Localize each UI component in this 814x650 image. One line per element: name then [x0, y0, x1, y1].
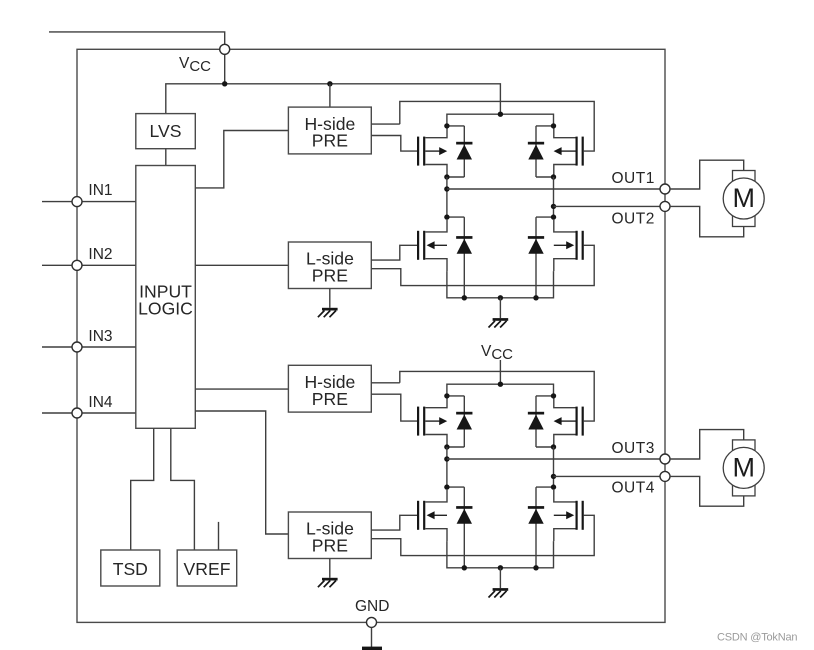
ground L-side PRE2	[318, 578, 338, 587]
wire VCC internal drop	[224, 54, 226, 84]
ground L-side PRE1	[318, 308, 338, 317]
transistor Q7 low-side left	[417, 490, 447, 541]
wire L-side PRE1 output 2 low gate route	[371, 245, 594, 285]
svg-text:VREF: VREF	[184, 559, 231, 579]
wire bridge1 ground stub	[499, 298, 501, 318]
svg-text:PRE: PRE	[312, 535, 348, 555]
svg-text:PRE: PRE	[312, 131, 348, 151]
svg-text:IN4: IN4	[88, 394, 113, 411]
svg-text:IN3: IN3	[88, 328, 112, 345]
terminal OUT3	[660, 454, 670, 464]
wire LVS to INPUT LOGIC	[165, 149, 167, 166]
node Q3 drain	[444, 214, 449, 219]
wire bridge2 ground stub	[499, 568, 501, 588]
wire IN2 to INPUT LOGIC	[82, 264, 136, 266]
wire motor2 lower	[670, 476, 744, 506]
wire L-side PRE2 output 2 low gate route	[371, 515, 594, 555]
terminal GND	[367, 617, 377, 627]
wire IN1 external stub	[42, 201, 72, 203]
motor M2	[723, 440, 764, 496]
svg-text:PRE: PRE	[312, 389, 348, 409]
transistor Q5 high-side left	[417, 396, 447, 447]
node D8 anode	[533, 565, 538, 570]
wire bridge1 bottom rail	[447, 271, 554, 298]
node Q6 source	[551, 444, 556, 449]
svg-text:VCC: VCC	[179, 55, 211, 75]
terminal OUT1	[660, 184, 670, 194]
node OUT2 tap	[551, 204, 556, 209]
wire bridge1 top rail	[447, 114, 554, 126]
node bridge1 ground tap	[498, 295, 503, 300]
wire OUT2 line	[554, 205, 661, 207]
wire L-side PRE1 output 1	[371, 245, 417, 260]
svg-text:CSDN @TokNan: CSDN @TokNan	[717, 632, 797, 644]
transistor Q2 high-side right	[554, 126, 584, 177]
node D4 anode	[533, 295, 538, 300]
block H-side PRE U4	[288, 365, 371, 412]
wire IN4 to INPUT LOGIC	[82, 412, 136, 414]
node VCC rail junction 1	[222, 81, 227, 86]
diode D5	[447, 396, 473, 447]
wire bridge1 high gate route	[400, 101, 594, 151]
wire H-side PRE2 output 1	[371, 382, 400, 384]
block LVS	[136, 114, 196, 149]
wire IN3 external stub	[42, 346, 72, 348]
node Q1 source	[444, 174, 449, 179]
terminal VCC	[220, 44, 230, 54]
node Q2 source	[551, 174, 556, 179]
wire H-side PRE1 output 1	[371, 123, 400, 125]
wire L-side PRE2 output 1	[371, 515, 417, 530]
diode D3	[447, 217, 473, 298]
ground bridge2	[489, 588, 509, 597]
wire bridge2 VCC stub	[499, 360, 501, 384]
node Q6 drain	[551, 393, 556, 398]
block VREF	[177, 550, 237, 586]
node D7 anode	[462, 565, 467, 570]
svg-text:OUT1: OUT1	[612, 170, 655, 187]
diode D6	[528, 396, 554, 447]
wire INPUT LOGIC to L-side PRE2	[195, 411, 288, 534]
IC outline box	[77, 49, 665, 622]
block L-side PRE U5	[288, 512, 371, 559]
block H-side PRE U2	[288, 107, 371, 154]
wire bridge2 top rail	[447, 384, 554, 396]
motor M1	[723, 171, 764, 227]
wire INPUT LOGIC to H-side PRE2	[195, 388, 288, 390]
diode D7	[447, 487, 473, 568]
wire bridge2 high gate route	[400, 371, 594, 421]
node OUT1 tap	[444, 186, 449, 191]
wire INPUT LOGIC to VREF	[171, 428, 195, 550]
svg-text:LVS: LVS	[150, 121, 182, 141]
wire VCC external stub	[49, 32, 225, 44]
node OUT4 tap	[551, 474, 556, 479]
wire INPUT LOGIC to L-side PRE1	[195, 264, 288, 266]
transistor Q8 low-side right	[554, 490, 584, 541]
node Q1 drain	[444, 123, 449, 128]
terminal OUT4	[660, 471, 670, 481]
ground bridge1	[489, 318, 509, 327]
wire IN2 external stub	[42, 264, 72, 266]
block L-side PRE U3	[288, 242, 371, 289]
transistor Q4 low-side right	[554, 220, 584, 271]
wire bridge1 left leg	[446, 177, 448, 217]
diode D4	[528, 217, 554, 298]
svg-text:PRE: PRE	[312, 265, 348, 285]
wire H-side PRE1 supply drop	[329, 84, 331, 107]
svg-text:GND: GND	[355, 598, 389, 615]
node Q4 drain	[551, 214, 556, 219]
terminal IN4	[72, 408, 82, 418]
block TSD	[101, 550, 160, 586]
svg-text:IN2: IN2	[88, 246, 112, 263]
wire bridge1 right leg	[553, 177, 555, 217]
wire motor1 upper	[670, 160, 744, 189]
ground GND bar	[362, 647, 382, 650]
wire bridge2 bottom rail	[447, 541, 554, 568]
node Q2 drain	[551, 123, 556, 128]
transistor Q3 low-side left	[417, 220, 447, 271]
node VCC rail junction 2	[327, 81, 332, 86]
wire bridge2 right leg	[553, 447, 555, 487]
wire IN1 to INPUT LOGIC	[82, 201, 136, 203]
svg-text:VCC: VCC	[481, 343, 513, 363]
svg-text:OUT3: OUT3	[612, 440, 655, 457]
terminal IN2	[72, 260, 82, 270]
diode D8	[528, 487, 554, 568]
wire OUT1 line	[447, 188, 660, 190]
svg-text:TSD: TSD	[113, 559, 148, 579]
terminal IN1	[72, 197, 82, 207]
terminal IN3	[72, 342, 82, 352]
wire bridge2 left leg	[446, 447, 448, 487]
node Q5 source	[444, 444, 449, 449]
wire INPUT LOGIC to H-side PRE1	[195, 131, 288, 188]
wire motor2 upper	[670, 430, 744, 459]
node bridge2 ground tap	[498, 565, 503, 570]
diode D2	[528, 126, 554, 177]
wire GND external stub	[371, 627, 373, 647]
wire IN4 external stub	[42, 412, 72, 414]
wire H-side PRE1 output 2	[371, 136, 417, 152]
wire INPUT LOGIC to TSD	[131, 428, 154, 550]
node D3 anode	[462, 295, 467, 300]
transistor Q6 high-side right	[554, 396, 584, 447]
transistor Q1 high-side left	[417, 126, 447, 177]
wire L-side PRE2 ground stub	[329, 559, 331, 578]
svg-text:LOGIC: LOGIC	[138, 299, 193, 319]
block INPUT LOGIC U1	[136, 166, 196, 429]
terminal OUT2	[660, 201, 670, 211]
node Q5 drain	[444, 393, 449, 398]
wire motor1 lower	[670, 206, 744, 236]
node bridge2 VCC tap	[498, 382, 503, 387]
wire H-side PRE2 output 2	[371, 394, 417, 421]
wire L-side PRE1 ground stub	[329, 289, 331, 308]
wire VREF output stub	[218, 522, 220, 550]
node Q8 drain	[551, 484, 556, 489]
wire OUT4 line	[554, 475, 661, 477]
svg-text:OUT4: OUT4	[612, 480, 655, 497]
svg-text:OUT2: OUT2	[612, 211, 655, 228]
node OUT3 tap	[444, 456, 449, 461]
wire VCC rail	[166, 84, 501, 114]
node bridge1 VCC tap	[498, 112, 503, 117]
wire IN3 to INPUT LOGIC	[82, 346, 136, 348]
node Q7 drain	[444, 484, 449, 489]
wire OUT3 line	[447, 458, 660, 460]
svg-text:IN1: IN1	[88, 182, 112, 199]
diode D1	[447, 126, 473, 177]
